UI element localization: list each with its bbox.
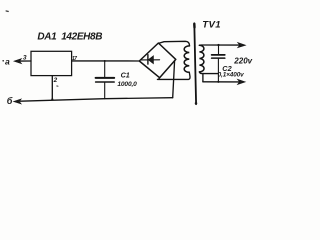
op-amp DA1 box (regulator 142EN8V): [31, 51, 72, 75]
svg-text:DA1 142EH8B: DA1 142EH8B: [37, 32, 102, 43]
junction C2 bottom: [217, 81, 219, 83]
wire bridge bottom corner AC2 to secondary bottom: [157, 72, 190, 79]
node b arrow: [14, 99, 22, 104]
svg-text:3: 3: [23, 55, 27, 62]
diode symbol inside bridge: [141, 59, 160, 61]
wire bottom 220v arrow line: [203, 81, 240, 83]
wire primary bottom stub to C2 leg: [199, 72, 218, 74]
wire pin3 left of DA1: [20, 60, 31, 62]
svg-text:220v: 220v: [233, 57, 252, 66]
diode bridge VD1 diamond: [139, 43, 176, 78]
svg-text:0,1×400v: 0,1×400v: [218, 72, 245, 79]
wire bottom rail: [20, 98, 172, 102]
node a arrow: [14, 59, 22, 64]
transformer core: [194, 23, 196, 104]
node C1 junction: [104, 60, 106, 62]
svg-text:1000,0: 1000,0: [117, 81, 137, 88]
speck near pin2: [57, 85, 58, 87]
wire drop to bottom arrow line: [202, 74, 204, 82]
wire pin2 bottom of DA1: [51, 76, 53, 100]
svg-text:C1: C1: [121, 70, 130, 79]
svg-text:б: б: [7, 96, 13, 106]
arrow 220v top: [238, 43, 246, 48]
junction pin2-rail: [51, 98, 53, 100]
capacitor C2: [218, 45, 220, 54]
speck top-left: [6, 10, 8, 12]
capacitor C1: [104, 61, 106, 77]
wire primary top to 220v arrow: [199, 44, 239, 46]
transformer TV1 secondary winding: [184, 46, 189, 72]
wire pin17 right of DA1 to bridge: [72, 60, 140, 62]
wire bridge right corner down to rail: [173, 61, 175, 98]
node C2 top junction: [217, 44, 219, 46]
svg-text:a: a: [5, 57, 10, 67]
wire bridge top corner to secondary top: [158, 41, 189, 46]
transformer TV1 primary winding: [199, 45, 204, 72]
arrow 220v bottom: [238, 79, 246, 84]
svg-text:TV1: TV1: [202, 20, 221, 31]
svg-text:2: 2: [53, 77, 58, 84]
